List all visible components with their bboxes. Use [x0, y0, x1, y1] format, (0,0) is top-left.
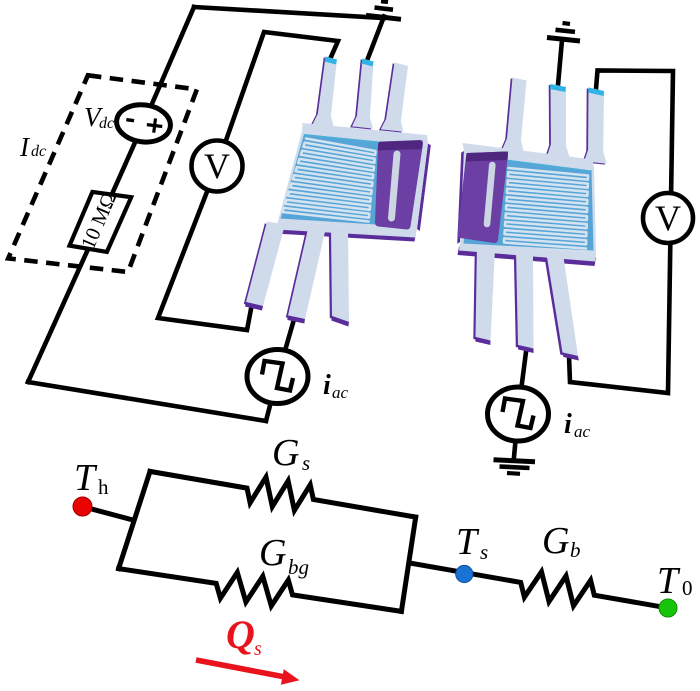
wire Vdc source to 10 Mohm resistor — [112, 123, 144, 194]
purple electrode block — [379, 144, 420, 227]
svg-text:dc: dc — [99, 115, 114, 132]
svg-text:s: s — [254, 638, 262, 660]
right suspended microdevice — [457, 78, 607, 361]
wire loop left edge — [119, 471, 150, 568]
left suspended microdevice — [244, 57, 431, 327]
purple under-shadow — [244, 57, 431, 324]
svg-text:T: T — [74, 457, 98, 499]
svg-text:ac: ac — [332, 383, 349, 402]
dashed box Idc current source outline — [8, 75, 197, 272]
svg-text:i: i — [564, 409, 572, 440]
voltmeter V (left) — [192, 141, 243, 192]
ground (below right ac source) — [494, 460, 536, 474]
wire top ground to device beam — [368, 17, 384, 59]
svg-text:ac: ac — [574, 422, 591, 441]
wire Th to loop — [83, 507, 133, 520]
silver beams and platform frame — [246, 57, 428, 323]
svg-text:V: V — [655, 198, 681, 238]
wire right ac source to ground — [514, 414, 518, 457]
heat flow arrow Qs — [196, 660, 300, 685]
svg-text:s: s — [302, 451, 310, 475]
voltmeter V (right) — [643, 193, 693, 243]
slot in purple block — [487, 165, 492, 224]
platform blue interior — [281, 134, 419, 227]
resistor Gbg — [119, 569, 402, 612]
svg-text:bg: bg — [288, 555, 309, 579]
wire to ac source bottom — [266, 377, 278, 422]
wire beam to right ac source — [518, 352, 526, 414]
svg-text:Q: Q — [226, 612, 255, 657]
svg-text:h: h — [98, 475, 109, 499]
svg-text:G: G — [542, 520, 569, 562]
platform blue interior — [464, 155, 594, 251]
wire top horizontal to ground junction — [194, 7, 384, 18]
wire left vertical from corner to Vdc source — [144, 7, 195, 123]
serpentine heater — [504, 168, 588, 249]
wire right voltmeter loop — [569, 71, 673, 394]
wire loop right edge — [401, 517, 415, 611]
resistor Gb — [410, 563, 669, 608]
node Ts (blue) — [456, 565, 473, 582]
wire 10 Mohm resistor down-left — [28, 249, 88, 382]
svg-text:s: s — [480, 540, 488, 564]
svg-text:i: i — [323, 370, 331, 401]
svg-text:T: T — [456, 521, 480, 563]
wire right top ground to device beam — [558, 40, 562, 85]
ground (top right, inverted) — [547, 23, 580, 41]
purple electrode block — [461, 155, 505, 240]
svg-text:dc: dc — [31, 143, 46, 160]
resistor 10 Mohm box — [70, 192, 132, 252]
wire bottom of dc loop — [28, 382, 266, 421]
wire voltmeter bottom loop — [158, 166, 251, 330]
slot in purple block — [392, 154, 398, 218]
svg-text:b: b — [570, 538, 581, 562]
ground (top left, inverted) — [366, 1, 401, 19]
node T0 (green) — [659, 599, 677, 617]
purple under-shadow — [457, 78, 605, 358]
ac current source (left) — [247, 350, 308, 404]
svg-text:G: G — [272, 432, 299, 474]
serpentine heater — [283, 139, 376, 222]
node Th (red) — [73, 497, 92, 516]
ac current source (right) — [488, 387, 549, 441]
dc voltage source Vdc — [114, 102, 172, 145]
silver beams and platform frame — [459, 78, 607, 357]
resistor Gs — [150, 471, 416, 517]
wire voltmeter top loop — [217, 32, 338, 166]
wire ac source top to sample beam — [278, 316, 296, 377]
svg-text:T: T — [657, 560, 681, 602]
svg-text:G: G — [259, 532, 286, 574]
contact tips — [325, 57, 338, 65]
svg-text:0: 0 — [682, 576, 693, 600]
contact tips — [550, 84, 566, 92]
svg-text:V: V — [204, 146, 230, 186]
thermal circuit wires — [83, 471, 668, 611]
